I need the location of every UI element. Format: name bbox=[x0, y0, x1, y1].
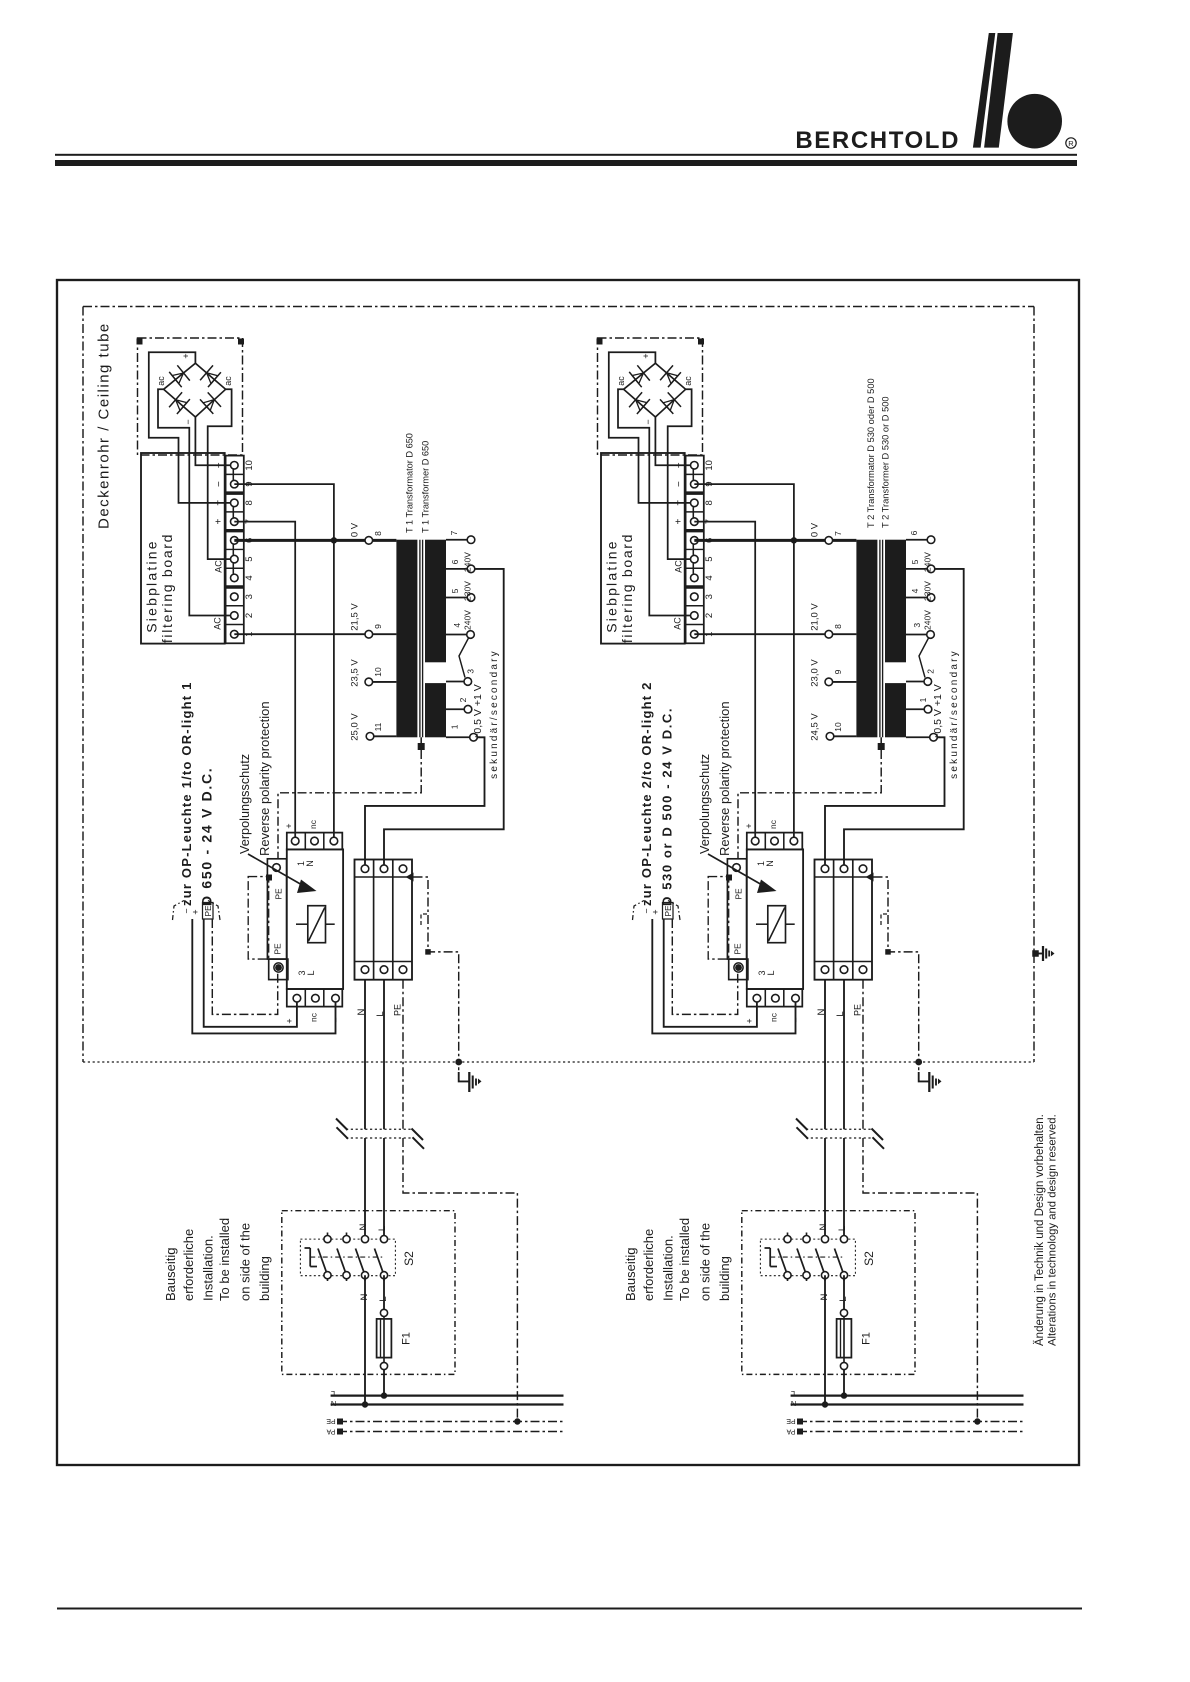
svg-text:building: building bbox=[257, 1256, 272, 1301]
svg-text:Reverse polarity protection: Reverse polarity protection bbox=[717, 701, 732, 856]
svg-text:−: − bbox=[183, 419, 193, 424]
wire secondary 230V tap down to terminal block L bbox=[844, 569, 964, 869]
svg-text:5: 5 bbox=[450, 588, 460, 593]
strip terminal circle 2 bbox=[231, 612, 239, 620]
transformer T2 primary winding bbox=[856, 540, 877, 738]
wire strip term 9 to module - bbox=[234, 484, 334, 841]
PE wire block to earth bbox=[874, 877, 919, 1062]
strip internal link 6-5-4 bbox=[232, 540, 234, 578]
secondary tap 3 wire bbox=[906, 634, 931, 636]
ground symbol bbox=[458, 1062, 460, 1073]
svg-text:8: 8 bbox=[833, 624, 843, 629]
wire 0V: strip term 6 to primary tap bbox=[234, 539, 396, 542]
svg-text:on side of the: on side of the bbox=[698, 1223, 713, 1301]
svg-text:building: building bbox=[717, 1256, 732, 1301]
svg-text:5: 5 bbox=[244, 557, 255, 562]
svg-text:240V: 240V bbox=[923, 552, 933, 572]
cable bundle brace left bbox=[633, 901, 645, 921]
svg-text:Verpolungsschutz: Verpolungsschutz bbox=[698, 754, 712, 854]
wire strip term 7 to module + bbox=[694, 522, 755, 841]
svg-text:5: 5 bbox=[704, 557, 715, 562]
strip terminal circle 5 bbox=[691, 555, 699, 563]
svg-text:+: + bbox=[641, 353, 651, 358]
switch mechanism linkage bbox=[309, 1248, 311, 1267]
svg-text:4: 4 bbox=[704, 575, 715, 580]
annotation arrow to module bbox=[708, 854, 763, 886]
svg-text:Bauseitig: Bauseitig bbox=[623, 1248, 638, 1301]
cable interruption marks bbox=[346, 1128, 412, 1130]
junction: minus wire crosses 0V wire bbox=[331, 537, 337, 543]
svg-text:on side of the: on side of the bbox=[238, 1223, 253, 1301]
secondary tap circle 3 bbox=[927, 631, 935, 639]
enclosure earth junction bbox=[1032, 950, 1039, 957]
logo dot bbox=[1007, 94, 1062, 149]
transformer T2 core bbox=[879, 540, 881, 738]
module K1 body bbox=[287, 849, 343, 989]
svg-text:AC: AC bbox=[673, 617, 683, 630]
wire 21.5V: strip term 1 to primary tap bbox=[234, 633, 396, 635]
strip terminal circle 10 bbox=[691, 462, 699, 470]
switch S2 pole 4 bbox=[383, 1275, 385, 1281]
secondary tap 4 wire bbox=[906, 681, 928, 683]
svg-text:3: 3 bbox=[244, 594, 255, 599]
bridge rectifier V1 bbox=[164, 363, 226, 417]
svg-text:N: N bbox=[331, 1399, 336, 1408]
secondary tap circle 0 bbox=[927, 536, 935, 544]
switch S2 pole 3 bbox=[824, 1275, 826, 1281]
svg-text:PE: PE bbox=[733, 943, 743, 955]
svg-text:zur OP-Leuchte 2/to OR-light 2: zur OP-Leuchte 2/to OR-light 2 bbox=[639, 681, 654, 906]
PE terminal strip 2 bbox=[727, 859, 746, 959]
svg-text:2: 2 bbox=[704, 613, 715, 618]
svg-text:9: 9 bbox=[833, 669, 843, 674]
wire strip term 9 to module - bbox=[694, 484, 794, 841]
drawing frame border bbox=[57, 280, 1079, 1465]
mains terminal block 2 (N L PE) bbox=[815, 860, 873, 980]
svg-text:−: − bbox=[674, 481, 685, 487]
secondary tap 1 wire bbox=[906, 568, 931, 570]
svg-text:24,5 V: 24,5 V bbox=[810, 713, 821, 741]
svg-text:ac: ac bbox=[223, 376, 233, 386]
svg-text:PA: PA bbox=[326, 1428, 335, 1435]
wire bridge + output to strip terminal 8 bbox=[149, 352, 235, 503]
secondary tap 5 wire bbox=[906, 708, 928, 710]
svg-text:10: 10 bbox=[373, 667, 383, 677]
svg-text:S2: S2 bbox=[402, 1251, 416, 1266]
wire fuse to L bus bbox=[843, 1370, 845, 1396]
junction N bbox=[822, 1401, 828, 1407]
transformer T2 secondary winding lower bbox=[885, 683, 906, 737]
svg-text:23,0 V: 23,0 V bbox=[810, 659, 821, 687]
svg-text:L: L bbox=[306, 970, 316, 975]
wire strip term 7 to module + bbox=[234, 522, 295, 841]
fuse F1 (2) bbox=[840, 1309, 847, 1316]
svg-text:−: − bbox=[329, 822, 339, 827]
wire L block to switch S2 bbox=[383, 980, 385, 1130]
junction L bbox=[841, 1392, 847, 1398]
strip terminal circle 6 bbox=[691, 537, 699, 545]
svg-text:L: L bbox=[766, 970, 776, 975]
PE junction dot lower cell bbox=[735, 964, 742, 971]
svg-text:ac: ac bbox=[683, 376, 693, 386]
svg-text:230V: 230V bbox=[463, 581, 473, 601]
svg-text:AC: AC bbox=[214, 560, 224, 573]
dashed bracket decoration bbox=[421, 914, 429, 925]
svg-text:25,0 V: 25,0 V bbox=[350, 713, 361, 741]
svg-text:2: 2 bbox=[458, 697, 468, 702]
svg-text:0 V: 0 V bbox=[810, 522, 821, 537]
svg-text:−: − bbox=[791, 1017, 801, 1022]
switch S2 (1) dotted outline bbox=[300, 1239, 395, 1276]
primary tap circle (21.5V) bbox=[825, 630, 833, 638]
svg-text:PE: PE bbox=[326, 1417, 336, 1424]
switch S2 pole 1 bbox=[787, 1233, 789, 1240]
junction: minus wire crosses 0V wire bbox=[791, 537, 797, 543]
strip terminal circle 9 bbox=[691, 480, 699, 488]
strip internal link 10-9 bbox=[692, 465, 694, 484]
svg-text:PE: PE bbox=[274, 888, 284, 900]
svg-text:8: 8 bbox=[244, 500, 255, 505]
module K2 bottom terminal row bbox=[747, 989, 803, 1007]
wire DC plus to OP light bbox=[204, 919, 297, 1027]
label PE boxed bbox=[203, 903, 214, 920]
svg-text:AC: AC bbox=[674, 560, 684, 573]
svg-text:6: 6 bbox=[450, 559, 460, 564]
polarity protection module K2: top terminal row bbox=[747, 833, 803, 850]
svg-text:PE: PE bbox=[853, 1004, 863, 1016]
svg-text:Installation.: Installation. bbox=[661, 1235, 676, 1301]
secondary tap 4 wire bbox=[446, 681, 468, 683]
wire bridge - output to strip terminal 10 bbox=[655, 417, 694, 465]
strip terminal circle 1 bbox=[691, 630, 699, 638]
ground symbol (enclosure) bbox=[1042, 946, 1044, 961]
svg-text:+: + bbox=[181, 353, 191, 358]
strip terminal circle 10 bbox=[231, 462, 239, 470]
svg-text:L: L bbox=[377, 1226, 388, 1231]
fuse F1 (1) bbox=[380, 1309, 387, 1316]
svg-text:1: 1 bbox=[918, 697, 928, 702]
svg-text:T 1 Transformer D 650: T 1 Transformer D 650 bbox=[421, 441, 431, 533]
PE arrow at block bbox=[866, 873, 874, 882]
header double rule bbox=[55, 154, 1077, 156]
svg-text:+: + bbox=[674, 519, 685, 525]
strip terminal circle 4 bbox=[691, 574, 699, 582]
secondary tap 6 wire bbox=[906, 736, 934, 738]
PA bus (2) bbox=[798, 1431, 1024, 1433]
wire secondary 230V tap down to terminal block L bbox=[384, 569, 504, 869]
svg-text:21,5 V: 21,5 V bbox=[350, 603, 361, 631]
svg-text:T 1 Transformator D 650: T 1 Transformator D 650 bbox=[405, 433, 415, 533]
svg-text:Siebplatine: Siebplatine bbox=[604, 539, 620, 632]
svg-text:ac: ac bbox=[616, 376, 626, 386]
svg-text:nc: nc bbox=[768, 819, 778, 829]
svg-text:PE: PE bbox=[734, 888, 744, 900]
svg-text:7: 7 bbox=[833, 531, 843, 536]
wire secondary bottom tap to terminal block N bbox=[365, 737, 485, 868]
wire bridge AC-left to strip terminal 2 bbox=[618, 389, 694, 615]
transformer T2 secondary winding upper bbox=[885, 540, 906, 663]
svg-text:Siebplatine: Siebplatine bbox=[144, 539, 160, 632]
svg-text:23,5 V: 23,5 V bbox=[350, 659, 361, 687]
dashed box around PE strip bbox=[708, 877, 729, 960]
L supply bus (1) bbox=[331, 1394, 564, 1396]
footer rule bbox=[57, 1608, 1082, 1610]
N supply bus (2) bbox=[791, 1403, 1024, 1405]
dashed box around PE strip bbox=[248, 877, 269, 960]
wire bridge AC-right to strip terminal 5 bbox=[208, 389, 235, 559]
secondary tap circle 4 bbox=[464, 678, 472, 686]
svg-text:R: R bbox=[1068, 139, 1074, 148]
secondary tap circle 5 bbox=[464, 705, 472, 713]
strip terminal circle 7 bbox=[691, 518, 699, 526]
secondary tap 2 wire bbox=[446, 597, 471, 599]
secondary tap 0 wire bbox=[906, 539, 931, 541]
svg-text:240V: 240V bbox=[463, 610, 473, 630]
svg-text:S2: S2 bbox=[862, 1251, 876, 1266]
svg-text:ac: ac bbox=[156, 376, 166, 386]
wire secondary bottom tap to terminal block N bbox=[825, 737, 945, 868]
logo thick slash bbox=[984, 33, 1013, 148]
svg-text:4: 4 bbox=[452, 623, 462, 628]
transformer T1 primary winding bbox=[396, 540, 417, 738]
cable bundle brace right bbox=[668, 901, 680, 921]
primary tap stub (23.5V) bbox=[369, 681, 397, 683]
svg-text:240V: 240V bbox=[923, 610, 933, 630]
PE wire core to PE strip bbox=[738, 750, 881, 859]
wire PE to OP light bbox=[672, 919, 737, 1014]
secondary tap circle 4 bbox=[924, 678, 932, 686]
transformer T1 core bbox=[419, 540, 421, 738]
svg-text:+: + bbox=[214, 519, 225, 525]
svg-text:L: L bbox=[791, 1389, 795, 1398]
wire DC minus to OP light bbox=[192, 919, 335, 1033]
junction PE riser bbox=[974, 1418, 980, 1424]
svg-text:T 2 Transformator D 530 oder D: T 2 Transformator D 530 oder D 500 bbox=[866, 378, 876, 528]
ceiling tube enclosure (dashed) bbox=[83, 306, 1034, 308]
wire bridge AC-right to strip terminal 5 bbox=[668, 389, 695, 559]
junction PE riser bbox=[514, 1418, 520, 1424]
svg-text:9: 9 bbox=[373, 624, 383, 629]
wire bridge - output to strip terminal 10 bbox=[195, 417, 234, 465]
wire DC plus to OP light bbox=[664, 919, 757, 1027]
polarity protection module K1: top terminal row bbox=[287, 833, 343, 850]
switch S2 pole 2 bbox=[806, 1233, 808, 1240]
svg-text:T 2 Transformer D 530 or D 500: T 2 Transformer D 530 or D 500 bbox=[881, 396, 891, 528]
wire PE down and to PE bus bbox=[402, 980, 404, 1130]
wire bridge AC-left to strip terminal 2 bbox=[158, 389, 234, 615]
primary tap stub (23.5V) bbox=[829, 681, 857, 683]
switch S2 pole 4 bbox=[843, 1275, 845, 1281]
svg-text:nc: nc bbox=[309, 1012, 319, 1022]
primary tap circle (0V) bbox=[825, 537, 833, 545]
svg-text:−: − bbox=[331, 1017, 341, 1022]
wire switch to fuse bbox=[843, 1275, 845, 1309]
switch S2 (2) dotted outline bbox=[760, 1239, 855, 1276]
relay contact inside K1 bbox=[308, 906, 326, 943]
switch S2 pole 2 bbox=[346, 1233, 348, 1240]
svg-text:230V: 230V bbox=[923, 581, 933, 601]
svg-text:PE: PE bbox=[273, 943, 283, 955]
PE arrow at block bbox=[406, 873, 414, 882]
Siebplatine filtering board A2 bbox=[601, 453, 685, 644]
svg-text:Bauseitig: Bauseitig bbox=[163, 1248, 178, 1301]
secondary tap circle 1 bbox=[467, 565, 475, 573]
ground symbol bbox=[918, 1062, 920, 1073]
ceiling tube enclosure bottom (dotted) bbox=[83, 1061, 1034, 1063]
secondary tap 1 wire bbox=[446, 568, 471, 570]
svg-text:10: 10 bbox=[833, 722, 843, 732]
PE wire core to PE strip bbox=[278, 750, 421, 859]
svg-text:Installation.: Installation. bbox=[201, 1235, 216, 1301]
mains terminal block 1 (N L PE) bbox=[355, 860, 413, 980]
strip terminal circle 3 bbox=[691, 593, 699, 601]
svg-text:5: 5 bbox=[910, 559, 920, 564]
svg-text:erforderliche: erforderliche bbox=[641, 1229, 656, 1301]
wire N block to switch S2 bbox=[364, 980, 366, 1130]
svg-text:4: 4 bbox=[244, 575, 255, 580]
svg-text:Änderung in Technik und Design: Änderung in Technik und Design vorbehalt… bbox=[1034, 1114, 1046, 1346]
svg-text:−: − bbox=[643, 419, 653, 424]
transformer T1 secondary winding upper bbox=[425, 540, 446, 663]
cable bundle brace left bbox=[173, 901, 185, 921]
secondary tap circle 2 bbox=[927, 594, 935, 602]
secondary tap circle 3 bbox=[467, 631, 475, 639]
switch S2 pole 3 bbox=[364, 1275, 366, 1281]
strip terminal circle 2 bbox=[691, 612, 699, 620]
junction N bbox=[362, 1401, 368, 1407]
wire bridge + output to strip terminal 8 bbox=[609, 352, 695, 503]
secondary tap circle 0 bbox=[467, 536, 475, 544]
PE bus (1) bbox=[338, 1421, 564, 1423]
wire switch N to N bus bbox=[824, 1275, 826, 1404]
svg-text:sekundär/secondary: sekundär/secondary bbox=[949, 649, 960, 779]
strip terminal circle 3 bbox=[231, 593, 239, 601]
svg-text:240V: 240V bbox=[463, 552, 473, 572]
svg-text:+0,5 V +1 V: +0,5 V +1 V bbox=[472, 684, 484, 739]
transformer core earth stub bbox=[880, 737, 882, 743]
transformer core earth stub bbox=[420, 737, 422, 743]
svg-text:3: 3 bbox=[465, 669, 475, 674]
label PE boxed bbox=[663, 903, 674, 920]
svg-text:3: 3 bbox=[704, 594, 715, 599]
svg-text:7: 7 bbox=[449, 530, 459, 535]
ceiling-tube inner dashed enclosure (rectifier group) bbox=[598, 338, 703, 455]
svg-text:To be installed: To be installed bbox=[217, 1218, 232, 1301]
svg-text:L: L bbox=[837, 1226, 848, 1231]
svg-text:N: N bbox=[305, 860, 315, 867]
svg-text:+: + bbox=[651, 909, 661, 914]
svg-text:F1: F1 bbox=[401, 1332, 413, 1345]
wire N block to switch S2 bbox=[824, 980, 826, 1130]
svg-text:N: N bbox=[358, 1223, 369, 1230]
svg-text:+: + bbox=[674, 500, 685, 506]
svg-text:filtering board: filtering board bbox=[619, 533, 635, 643]
PA bus (1) bbox=[338, 1431, 564, 1433]
secondary tap circle 2 bbox=[467, 594, 475, 602]
registered mark bbox=[1066, 138, 1076, 148]
wire switch to fuse bbox=[383, 1275, 385, 1309]
PE wire block to earth bbox=[414, 877, 459, 1062]
switch mechanism linkage bbox=[769, 1248, 771, 1267]
secondary tap circle 6 bbox=[930, 734, 938, 742]
svg-text:1: 1 bbox=[449, 724, 459, 729]
svg-text:D 530 or D 500 - 24 V D.C.: D 530 or D 500 - 24 V D.C. bbox=[660, 707, 675, 906]
wire 0V: strip term 6 to primary tap bbox=[694, 539, 856, 542]
strip terminal circle 8 bbox=[691, 499, 699, 507]
tap jumper selector between taps bbox=[919, 638, 929, 678]
svg-text:+: + bbox=[214, 500, 225, 506]
wire L block to switch S2 bbox=[843, 980, 845, 1130]
svg-text:N: N bbox=[765, 860, 775, 867]
wire PE to OP light bbox=[212, 919, 277, 1014]
building-side installation enclosure 1 bbox=[282, 1211, 455, 1375]
strip terminal circle 1 bbox=[231, 630, 239, 638]
cable bundle brace right bbox=[208, 901, 220, 921]
module K1 bottom terminal row bbox=[287, 989, 343, 1007]
wire fuse to L bus bbox=[383, 1370, 385, 1396]
svg-text:8: 8 bbox=[704, 500, 715, 505]
junction L bbox=[381, 1392, 387, 1398]
primary tap circle (21.5V) bbox=[365, 630, 373, 638]
svg-text:Alterations in technology and: Alterations in technology and design res… bbox=[1047, 1114, 1059, 1346]
secondary tap 2 wire bbox=[906, 597, 931, 599]
svg-text:Reverse polarity protection: Reverse polarity protection bbox=[257, 701, 272, 856]
switch S2 pole 1 bbox=[327, 1233, 329, 1240]
svg-text:F1: F1 bbox=[861, 1332, 873, 1345]
strip terminal circle 5 bbox=[231, 555, 239, 563]
svg-text:11: 11 bbox=[373, 722, 383, 731]
earth junction on enclosure edge bbox=[455, 1059, 462, 1066]
wire 21.5V: strip term 1 to primary tap bbox=[694, 633, 856, 635]
strip terminal circle 8 bbox=[231, 499, 239, 507]
svg-text:+0,5 V +1 V: +0,5 V +1 V bbox=[932, 684, 944, 739]
svg-text:zur OP-Leuchte 1/to OR-light 1: zur OP-Leuchte 1/to OR-light 1 bbox=[179, 681, 194, 906]
svg-text:BERCHTOLD: BERCHTOLD bbox=[795, 127, 960, 154]
strip terminal circle 9 bbox=[231, 480, 239, 488]
transformer T1 secondary winding lower bbox=[425, 683, 446, 737]
svg-text:N: N bbox=[818, 1223, 829, 1230]
PE terminal strip 1 bbox=[267, 859, 286, 959]
PE bus (2) bbox=[798, 1421, 1024, 1423]
strip terminal circle 6 bbox=[231, 537, 239, 545]
PE junction dot lower cell bbox=[275, 964, 282, 971]
svg-text:3: 3 bbox=[912, 623, 922, 628]
strip internal link 6-5-4 bbox=[692, 540, 694, 578]
svg-text:erforderliche: erforderliche bbox=[181, 1229, 196, 1301]
svg-text:0 V: 0 V bbox=[350, 522, 361, 537]
secondary tap circle 5 bbox=[924, 705, 932, 713]
svg-text:2: 2 bbox=[925, 669, 935, 674]
strip terminal circle 4 bbox=[231, 574, 239, 582]
svg-text:nc: nc bbox=[308, 819, 318, 829]
svg-text:PA: PA bbox=[786, 1428, 795, 1435]
svg-text:PE: PE bbox=[393, 1004, 403, 1016]
secondary tap 5 wire bbox=[446, 708, 468, 710]
svg-text:2: 2 bbox=[244, 613, 255, 618]
svg-text:+: + bbox=[285, 1018, 295, 1023]
terminal strip X1 (10 terminals) bbox=[226, 456, 244, 644]
wire switch N to N bus bbox=[364, 1275, 366, 1404]
annotation arrow to module bbox=[248, 854, 303, 886]
strip internal link 8-7 bbox=[232, 503, 234, 522]
bridge rectifier V2 bbox=[624, 363, 686, 417]
primary tap circle (0V) bbox=[365, 537, 373, 545]
svg-text:D 650 - 24 V D.C.: D 650 - 24 V D.C. bbox=[199, 767, 215, 906]
primary tap stub (25V) bbox=[830, 735, 856, 737]
svg-text:L: L bbox=[331, 1389, 335, 1398]
terminal strip X2 (10 terminals) bbox=[686, 456, 704, 644]
svg-text:8: 8 bbox=[373, 531, 383, 536]
